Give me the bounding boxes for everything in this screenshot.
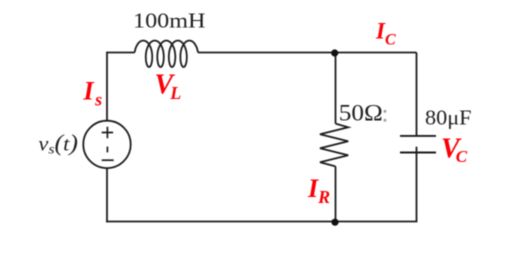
junction node bottom — [331, 219, 338, 226]
svg-text:100mH: 100mH — [133, 9, 206, 33]
svg-text:VC: VC — [441, 134, 468, 166]
inductor L1 100mH — [135, 41, 198, 67]
svg-text:VL: VL — [155, 69, 182, 103]
svg-text:IC: IC — [375, 19, 396, 49]
svg-text:50Ω: 50Ω — [339, 101, 383, 126]
resistor R1 50 ohm — [320, 124, 348, 167]
wire middle branch upper — [335, 53, 337, 124]
wire bottom rail — [106, 221, 417, 223]
wire right branch upper — [416, 53, 418, 137]
source middle dash — [106, 147, 108, 153]
svg-text::: : — [382, 101, 389, 128]
wire left branch lower — [106, 168, 108, 222]
wire left branch upper — [106, 52, 108, 121]
capacitor C1 top plate — [400, 135, 436, 137]
source vs circle — [83, 121, 130, 168]
svg-text:IR: IR — [307, 174, 330, 207]
wire right branch lower — [416, 147, 418, 222]
junction node top — [331, 49, 338, 56]
wire top-left segment — [107, 52, 135, 54]
capacitor C1 bottom plate — [400, 152, 436, 154]
source minus sign — [102, 159, 114, 161]
svg-text:vs(t): vs(t) — [38, 130, 78, 157]
source plus sign — [102, 127, 113, 138]
wire top rail right of inductor — [198, 52, 417, 54]
svg-text:80μF: 80μF — [425, 105, 472, 129]
svg-text:Is: Is — [83, 77, 103, 110]
wire middle branch lower — [335, 166, 337, 221]
